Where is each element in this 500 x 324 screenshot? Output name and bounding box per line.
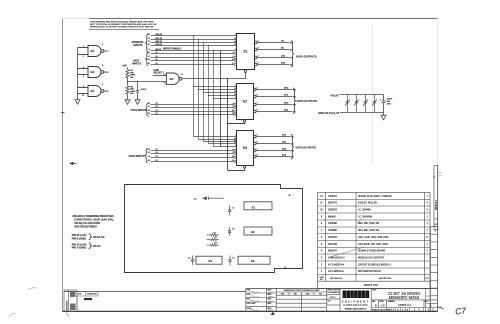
svg-text:12: 12	[155, 160, 157, 162]
revision history box	[77, 292, 98, 312]
title strip top edge (left portion)	[64, 291, 246, 293]
svg-text:J1: J1	[148, 49, 150, 51]
svg-text:OPTION/MODEL: OPTION/MODEL	[328, 292, 340, 294]
E1 enable pin bubble	[244, 70, 246, 72]
svg-text:1: 1	[235, 85, 236, 87]
svg-text:H2: H2	[148, 160, 150, 162]
svg-text:d: d	[343, 293, 346, 298]
decoupling capacitor C5	[372, 95, 377, 113]
svg-text:THIS DRAWING AND SPECIFICATION: THIS DRAWING AND SPECIFICATIONS, HEREIN,…	[90, 20, 154, 23]
arrowhead mark below border	[271, 312, 275, 315]
svg-text:M253-0-1: M253-0-1	[398, 303, 412, 307]
brace address inputs	[145, 34, 148, 53]
svg-text:7406731: 7406731	[328, 196, 338, 198]
revision mark dash	[84, 298, 92, 300]
svg-text:E4: E4	[91, 70, 95, 74]
svg-text:PROJ. ENG.: PROJ. ENG.	[247, 303, 257, 305]
svg-text:UNLESS OTHERWISE INDICATED:: UNLESS OTHERWISE INDICATED:	[73, 214, 115, 218]
svg-text:ON E4: ON E4	[93, 244, 101, 248]
svg-text:ERTY OF DIGITAL EQUIPMENT CORP: ERTY OF DIGITAL EQUIPMENT CORPORATION AN…	[90, 23, 157, 26]
bus junction dots	[193, 35, 214, 99]
diode D1 (board)	[207, 234, 220, 236]
svg-text:15: 15	[155, 149, 157, 151]
svg-text:i: i	[348, 293, 349, 298]
E1 outputs	[255, 41, 258, 44]
svg-text:6: 6	[233, 152, 234, 154]
svg-text:M253-0-1: M253-0-1	[435, 199, 438, 210]
svg-text:D-MD-M253-0-2: D-MD-M253-0-2	[328, 257, 345, 259]
svg-text:4: 4	[233, 52, 234, 54]
svg-text:ME (2): ME (2)	[155, 49, 161, 51]
svg-text:E2: E2	[148, 152, 150, 154]
svg-text:a: a	[362, 293, 365, 298]
title strip top edge (right portion)	[246, 288, 438, 290]
svg-text:E3: E3	[243, 146, 247, 150]
enable tap to E3	[228, 168, 245, 170]
IC E4 (board)	[196, 256, 222, 264]
notes text block	[72, 214, 115, 249]
drawing border bottom	[63, 310, 438, 312]
notes brace 2	[89, 243, 92, 249]
svg-text:DATA OUTPUTS: DATA OUTPUTS	[296, 146, 317, 150]
svg-text:DATA INPUTS: DATA INPUTS	[129, 155, 145, 158]
svg-text:3: 3	[235, 49, 236, 51]
wire gate output to enable bus	[182, 73, 246, 79]
svg-text:CAPACITORS ( .01UF, 100V 20%,: CAPACITORS ( .01UF, 100V 20%,	[74, 218, 114, 222]
svg-text:1905575: 1905575	[328, 210, 338, 212]
svg-text:N2: N2	[148, 113, 150, 115]
svg-text:DATA INPUTS: DATA INPUTS	[131, 109, 147, 112]
svg-text:E4: E4	[91, 89, 95, 93]
svg-text:QTY.: QTY.	[425, 278, 429, 280]
svg-text:(L2): (L2)	[282, 155, 286, 157]
E2 outputs	[254, 88, 257, 91]
svg-text:l: l	[367, 293, 368, 298]
svg-text:9004732: 9004732	[328, 203, 338, 205]
svg-text:AD0 (2): AD0 (2)	[155, 33, 162, 36]
svg-text:N1: N1	[148, 63, 150, 65]
ECO arrow mark at left border	[69, 162, 73, 165]
svg-text:+5V,A2: +5V,A2	[330, 94, 339, 98]
svg-text:I.C. SN7489: I.C. SN7489	[358, 210, 371, 212]
GND rail wire	[340, 112, 384, 114]
decoupling capacitor C4	[363, 95, 368, 113]
svg-text:4: 4	[433, 175, 435, 179]
svg-text:SIGNAL PLUG PART + HANDLE: SIGNAL PLUG PART + HANDLE	[358, 195, 392, 198]
svg-text:5%: 5%	[130, 77, 133, 79]
data input wires group 1	[151, 54, 235, 65]
enable tap to E2	[228, 122, 245, 123]
E2 enable pin bubble	[243, 120, 245, 122]
svg-text:+5V: +5V	[122, 64, 127, 68]
svg-text:4: 4	[233, 149, 234, 151]
parts list table grid	[318, 193, 431, 289]
svg-text:15: 15	[234, 88, 236, 90]
E2 left pin numbers	[232, 85, 236, 115]
svg-text:12: 12	[232, 113, 234, 115]
svg-text:AD1 (2): AD1 (2)	[155, 37, 162, 40]
svg-text:RES. 680, 1/4W, 5%: RES. 680, 1/4W, 5%	[358, 230, 379, 232]
svg-text:H1: H1	[148, 44, 150, 46]
parts list row text	[320, 195, 428, 273]
copyright notice underline	[89, 29, 159, 31]
svg-text:B: B	[375, 303, 377, 307]
E3 left pin numbers	[232, 135, 236, 162]
corner revisions box	[64, 290, 77, 311]
parts list header row	[319, 277, 429, 281]
svg-text:1000075: 1000075	[328, 237, 338, 239]
svg-text:CAP. .01UF, 100V, 20%, DISC: CAP. .01UF, 100V, 20%, DISC	[358, 236, 389, 239]
svg-text:10%: 10%	[387, 104, 391, 106]
svg-text:E1: E1	[148, 38, 150, 40]
svg-text:990482: 990482	[328, 216, 336, 218]
resistor R2 (board)	[207, 244, 220, 246]
svg-text:10: 10	[232, 156, 234, 158]
capacitor C9 branch	[137, 81, 139, 83]
svg-text:DATA OUTPUTS: DATA OUTPUTS	[297, 99, 318, 103]
svg-text:10: 10	[232, 59, 234, 61]
svg-text:RES. 390, 1/4W, 5%: RES. 390, 1/4W, 5%	[358, 223, 379, 225]
svg-text:15: 15	[234, 38, 236, 40]
svg-text:CAP. 6.8UF, 35V, 10%, TANT.: CAP. 6.8UF, 35V, 10%, TANT.	[358, 243, 389, 246]
svg-text:CHK.: CHK.	[247, 294, 251, 296]
svg-text:13: 13	[155, 156, 157, 158]
svg-text:(R1): (R1)	[284, 103, 289, 105]
svg-text:PIN 16 (+5V): PIN 16 (+5V)	[72, 233, 87, 237]
svg-text:E1: E1	[244, 50, 248, 54]
svg-text:(J2): (J2)	[282, 142, 286, 144]
first used on box	[327, 289, 340, 312]
svg-text:E2: E2	[243, 100, 247, 104]
wire R1 to node	[127, 78, 129, 82]
board outline	[125, 185, 303, 273]
svg-text:A-PL-M253-0-0: A-PL-M253-0-0	[328, 270, 344, 273]
title divider	[371, 299, 437, 301]
memory IC E1	[237, 34, 255, 70]
E3 outputs	[254, 135, 257, 138]
spare bus vertical wire	[220, 50, 222, 146]
svg-text:GND,C2,T1,F1,T2: GND,C2,T1,F1,T2	[318, 111, 340, 115]
address input wires	[151, 36, 237, 51]
svg-text:1300680: 1300680	[328, 230, 338, 232]
resistor R2	[127, 82, 129, 86]
svg-text:K2: K2	[148, 103, 150, 105]
svg-text:F1: F1	[148, 41, 150, 43]
revision slash marks	[330, 247, 364, 257]
svg-text:1: 1	[235, 135, 236, 137]
svg-text:13: 13	[234, 94, 236, 96]
svg-text:10: 10	[232, 110, 234, 112]
drawing border right (lower)	[437, 165, 439, 311]
ground (spare gates)	[75, 100, 80, 105]
svg-text:12: 12	[155, 113, 157, 115]
svg-text:ON E1-E3: ON E1-E3	[93, 235, 105, 239]
svg-text:E4: E4	[209, 259, 213, 263]
svg-text:ENG.: ENG.	[247, 299, 251, 301]
digital logo	[343, 291, 347, 299]
wire chip select input	[153, 75, 167, 77]
drawing number edge strip	[434, 166, 438, 230]
handwritten rev marks	[439, 173, 442, 177]
svg-text:PDP-9: PDP-9	[330, 297, 337, 299]
svg-text:CORPORATION: CORPORATION	[343, 304, 367, 307]
svg-text:FIRST USED ON: FIRST USED ON	[328, 290, 341, 292]
chip enable bus vertical wire	[227, 79, 229, 171]
address input labels	[148, 33, 163, 51]
svg-text:INPUTS: INPUTS	[132, 63, 141, 66]
svg-text:SIGNAL ETCHED BOARD: SIGNAL ETCHED BOARD	[358, 250, 386, 253]
faint pencil curl bottom-left	[9, 313, 16, 317]
brace data outputs 3	[291, 135, 294, 160]
svg-text:15: 15	[155, 52, 157, 54]
svg-text:TRANSISTOR & DIODE CONVERSION: TRANSISTOR & DIODE CONVERSION CHART	[283, 289, 319, 292]
capacitor C6 (board)	[228, 227, 231, 235]
handwritten mark near rev cell	[438, 307, 444, 309]
spare gate input tie rail wire	[77, 48, 79, 100]
svg-text:DRN.: DRN.	[247, 290, 251, 292]
svg-text:NO.: NO.	[320, 279, 324, 281]
signature block	[246, 289, 276, 312]
drawing border top	[89, 18, 438, 20]
svg-text:(2): (2)	[281, 41, 284, 43]
decoupling capacitor C2	[345, 95, 350, 113]
notes brace 1	[89, 234, 92, 240]
svg-text:(14): (14)	[281, 62, 285, 65]
NAND gate E4 (chip select)	[166, 73, 182, 84]
svg-text:CIRCUIT SCHEDULE M253-0-1: CIRCUIT SCHEDULE M253-0-1	[358, 264, 392, 266]
svg-text:INPUTS: INPUTS	[134, 44, 143, 47]
spare NAND gate E4 (1)	[78, 46, 107, 57]
svg-text:1001788: 1001788	[328, 244, 338, 246]
capacitor C8 (board)	[191, 256, 194, 266]
handwritten tick below border	[66, 313, 69, 317]
node junction dot	[127, 81, 129, 83]
address bus taps to E2	[194, 87, 237, 99]
svg-text:OR EQ,CO-100,P1400: OR EQ,CO-100,P1400	[74, 221, 100, 225]
svg-text:M1: M1	[148, 59, 151, 61]
svg-text:PARTS LIST: PARTS LIST	[364, 283, 379, 287]
svg-text:13: 13	[155, 59, 157, 61]
svg-text:13: 13	[234, 142, 236, 144]
svg-text:PIN IDENTIFICATION: PIN IDENTIFICATION	[358, 270, 381, 273]
svg-text:PIN 8 (GND): PIN 8 (GND)	[72, 236, 87, 240]
svg-text:I.C. SN7400N: I.C. SN7400N	[358, 216, 373, 218]
svg-text:6: 6	[233, 106, 234, 108]
svg-text:CHIP: CHIP	[153, 70, 159, 72]
memory IC E2	[237, 84, 254, 120]
svg-text:REV.: REV.	[425, 301, 429, 303]
svg-text:(V1): (V1)	[282, 135, 286, 137]
vertical fold line artifact	[372, 25, 374, 163]
svg-text:D2: D2	[148, 149, 150, 151]
brace data outputs 1	[291, 41, 294, 67]
svg-text:12: 12	[232, 63, 234, 65]
tick mark on left border	[61, 112, 65, 114]
copyright notice text	[90, 20, 157, 28]
drawing border left	[62, 19, 64, 312]
ground (C1)	[381, 115, 386, 120]
E2 data input bubbles	[234, 103, 236, 115]
svg-text:CS: CS	[381, 303, 385, 307]
data input wires group 3	[151, 151, 234, 162]
svg-text:ARE REGISTERED: ARE REGISTERED	[74, 225, 97, 229]
svg-text:E2: E2	[251, 230, 255, 234]
svg-text:1300390: 1300390	[328, 223, 338, 225]
size/code/number/rev row	[371, 300, 437, 308]
brace data inputs 1	[145, 53, 148, 66]
E3 enable pin bubble	[243, 166, 245, 168]
svg-text:9000247: 9000247	[328, 251, 338, 253]
svg-text:TITLE: TITLE	[372, 290, 376, 292]
resistor R1	[126, 70, 129, 78]
spare NAND gate E4 (3)	[78, 86, 107, 97]
spare NAND gate E4 (2)	[78, 67, 107, 78]
svg-text:MODULE ECO HISTORY: MODULE ECO HISTORY	[358, 257, 385, 259]
svg-text:(P1): (P1)	[284, 95, 288, 97]
svg-text:(10): (10)	[281, 56, 285, 58]
svg-text:K-CO-M253-0-4: K-CO-M253-0-4	[328, 264, 345, 266]
edge strip rev boxes column	[431, 227, 438, 312]
resistor R1 (board)	[207, 238, 220, 240]
svg-text:(S1): (S1)	[284, 110, 288, 112]
svg-text:14: 14	[234, 91, 236, 93]
svg-text:(N1): (N1)	[284, 88, 289, 90]
faint pencil mark left margin	[28, 288, 37, 290]
svg-text:13: 13	[234, 44, 236, 46]
svg-text:DEC PART NO.: DEC PART NO.	[330, 277, 343, 280]
svg-text:DESCRIPTION: DESCRIPTION	[379, 278, 392, 280]
signature squiggles	[250, 291, 273, 310]
svg-text:PIN 7 (GND): PIN 7 (GND)	[72, 245, 87, 249]
svg-text:E4: E4	[170, 77, 174, 81]
svg-text:AD2 (2): AD2 (2)	[155, 40, 162, 43]
drawing border right (faint top)	[437, 19, 439, 166]
svg-text:12: 12	[232, 160, 234, 162]
brace data inputs 2	[145, 103, 148, 116]
E1 data input bubbles	[234, 52, 236, 65]
svg-text:WRITE ENABLE: WRITE ENABLE	[163, 48, 182, 51]
svg-text:V: V	[284, 266, 286, 270]
svg-text:.01UF: .01UF	[141, 89, 147, 91]
IC E1 (board)	[244, 202, 272, 210]
svg-text:L1: L1	[148, 56, 150, 58]
svg-text:E3: E3	[251, 259, 255, 263]
svg-text:DATA OUTPUTS: DATA OUTPUTS	[296, 55, 317, 59]
svg-text:L2: L2	[148, 106, 150, 108]
svg-text:REPRODUCED OR COPIED OR USED I: REPRODUCED OR COPIED OR USED IN WHOLE OR…	[90, 26, 154, 29]
wire node to gate input	[128, 81, 167, 83]
svg-text:(6): (6)	[281, 48, 284, 50]
wire +5V to R1	[127, 67, 129, 69]
svg-text:E1: E1	[252, 205, 256, 209]
svg-text:AD3 (2): AD3 (2)	[155, 43, 162, 46]
memory IC E3	[237, 131, 254, 166]
brace data outputs 2	[293, 88, 296, 114]
svg-text:12: 12	[155, 63, 157, 65]
IC E2 (board)	[244, 227, 272, 235]
svg-text:1: 1	[235, 34, 236, 36]
logo box divider	[370, 289, 372, 312]
brace data inputs 3	[145, 149, 148, 163]
svg-text:C7: C7	[455, 305, 467, 316]
svg-text:F2: F2	[148, 156, 150, 158]
address bus vertical wires	[194, 36, 214, 147]
IC E3 (board)	[238, 256, 270, 264]
svg-text:3: 3	[235, 97, 236, 99]
address bus taps to E3	[194, 137, 237, 147]
svg-text:A: A	[430, 303, 432, 307]
svg-text:13: 13	[155, 110, 157, 112]
svg-text:MEMORY M253: MEMORY M253	[389, 295, 420, 300]
svg-text:M2: M2	[148, 110, 151, 112]
svg-text:i: i	[355, 293, 356, 298]
svg-text:K1: K1	[148, 52, 150, 54]
E1 left pin numbers	[232, 34, 236, 65]
data input wires group 2	[151, 105, 234, 115]
svg-text:E4: E4	[91, 49, 95, 53]
svg-text:NUMBER: NUMBER	[388, 301, 395, 303]
decoupling capacitor C3	[354, 95, 359, 113]
svg-text:14: 14	[234, 41, 236, 43]
ground (C9)	[135, 100, 140, 105]
svg-text:D1: D1	[148, 34, 150, 36]
svg-text:4: 4	[233, 103, 234, 105]
svg-text:6: 6	[233, 56, 234, 58]
E3 data input bubbles	[234, 149, 236, 162]
qty column continuation boxes	[426, 289, 431, 312]
svg-text:5%: 5%	[130, 93, 133, 95]
svg-text:g: g	[351, 293, 354, 298]
capacitor C5 (board)	[228, 256, 231, 266]
svg-text:15: 15	[155, 103, 157, 105]
capacitor C7 (board)	[228, 205, 231, 215]
+5V rail wire	[339, 94, 383, 96]
svg-text:EYELET, ROLLED: EYELET, ROLLED	[358, 203, 377, 205]
ground (R2)	[125, 100, 130, 105]
svg-text:(K2): (K2)	[282, 149, 287, 151]
transistor and diode conversion chart	[276, 289, 327, 312]
svg-text:3: 3	[235, 145, 236, 147]
capacitor C1 (6.8UF)	[382, 95, 386, 116]
svg-text:REVISIONS: REVISIONS	[67, 300, 69, 311]
